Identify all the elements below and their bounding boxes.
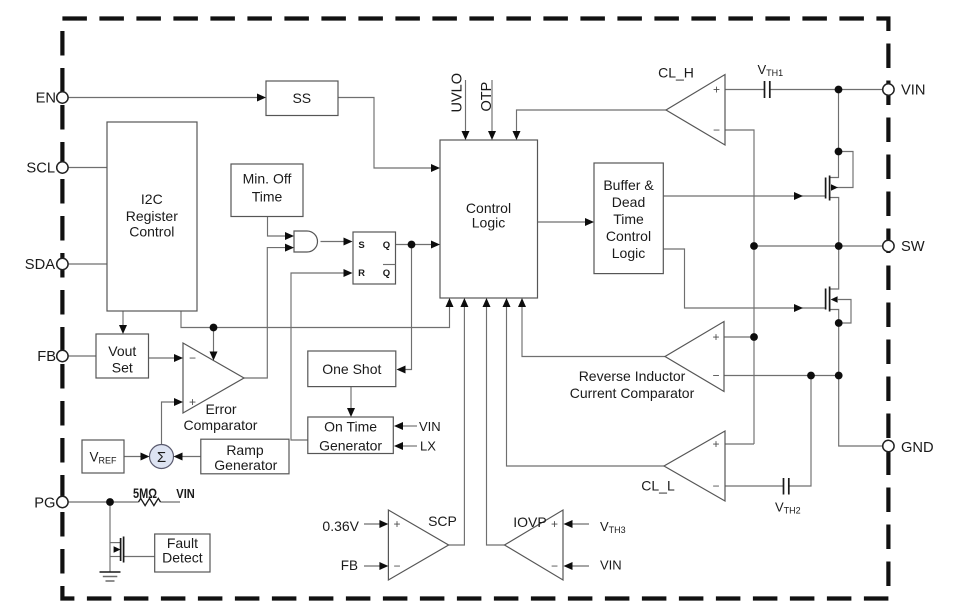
wire Reverse Inductor Comparator output to Control Logic	[522, 306, 665, 357]
svg-text:Generator: Generator	[319, 438, 382, 454]
junction high-side drain body node	[835, 148, 843, 156]
svg-text:FB: FB	[341, 558, 358, 573]
wire RICC minus input	[724, 375, 839, 377]
op-amp Error Comparator	[183, 343, 244, 413]
svg-text:CL_L: CL_L	[641, 478, 675, 494]
wire CL_L plus input	[725, 443, 754, 445]
wire Error Comparator output to AND gate	[244, 248, 287, 378]
arrow low-side MOSFET body	[831, 296, 838, 303]
arrow VTH3 into IOVP plus	[564, 520, 573, 528]
wire IOVP output to Control Logic	[487, 306, 505, 545]
arrow into One Shot right side	[397, 366, 406, 374]
svg-text:+: +	[551, 517, 558, 531]
arrow LX into On Time Generator	[394, 442, 403, 450]
arrow on high-side gate wire	[794, 192, 803, 200]
wire SCP output to Control Logic	[449, 306, 465, 545]
capacitor VTH2	[784, 478, 789, 495]
block I2C Register Control	[107, 122, 197, 311]
svg-text:Register: Register	[126, 208, 178, 224]
svg-text:VIN: VIN	[176, 486, 195, 501]
wire UVLO into Control Logic	[465, 80, 467, 133]
op-amp IOVP	[505, 510, 564, 580]
arrow VIN into On Time Generator	[394, 422, 403, 430]
junction low-side source node	[835, 319, 843, 327]
junction PG node	[106, 498, 114, 506]
svg-text:GND: GND	[901, 440, 934, 456]
svg-text:Time: Time	[252, 189, 283, 205]
wire VIN into IOVP minus	[570, 565, 589, 567]
svg-text:Error: Error	[205, 401, 236, 417]
svg-text:VTH2: VTH2	[775, 500, 801, 516]
pin GND	[883, 440, 894, 451]
arrow up into Control Logic bottom 4 CL_L	[503, 298, 511, 307]
svg-text:S: S	[358, 240, 364, 251]
svg-text:Reverse Inductor: Reverse Inductor	[579, 368, 686, 384]
op-amp CL_H	[666, 75, 725, 146]
svg-text:VIN: VIN	[419, 419, 441, 434]
arrow Ramp Generator into sigma	[174, 453, 183, 461]
arrow fault MOSFET body	[114, 546, 121, 553]
wire Buffer to high-side gate	[663, 195, 825, 197]
junction I2C line to error comparator	[210, 324, 218, 332]
wire VIN node down to high-side drain	[830, 90, 839, 178]
transistor Q1 high-side MOSFET channel plate	[829, 176, 831, 201]
svg-text:+: +	[189, 395, 196, 409]
block One Shot	[308, 351, 396, 387]
svg-text:SCP: SCP	[428, 513, 457, 529]
svg-text:Q: Q	[383, 240, 390, 251]
arrow Control Logic into Buffer	[585, 218, 594, 226]
op-amp Reverse Inductor Current Comparator	[665, 322, 724, 392]
svg-text:Control: Control	[129, 224, 174, 240]
svg-text:Logic: Logic	[612, 245, 645, 261]
arrow AND into latch S	[344, 238, 353, 246]
arrow high-side MOSFET body	[831, 184, 838, 191]
wire Control Logic to Buffer block	[538, 221, 588, 223]
op-amp SCP	[388, 510, 448, 580]
svg-text:Q: Q	[383, 268, 390, 279]
wire latch Q to Control Logic	[396, 244, 434, 246]
svg-text:Generator: Generator	[214, 457, 277, 473]
AND gate	[294, 231, 318, 252]
svg-text:SS: SS	[292, 90, 311, 106]
block Ramp Generator	[201, 439, 289, 474]
wire EN to SS	[68, 97, 260, 99]
resistor 5M ohm	[139, 498, 161, 505]
svg-text:Ramp: Ramp	[226, 442, 264, 458]
transistor Q3 fault MOSFET gate plate	[123, 537, 125, 563]
junction VIN node	[835, 86, 843, 94]
svg-text:IOVP: IOVP	[513, 514, 546, 530]
wire LX into On Time Generator	[401, 445, 417, 447]
arrow Error Comparator into AND	[285, 244, 294, 252]
wire Buffer to low-side gate	[663, 249, 825, 308]
wire CL_H output into Control Logic	[517, 110, 667, 133]
wire PG node down to fault MOSFET and ground	[109, 502, 111, 572]
svg-text:Dead: Dead	[612, 194, 645, 210]
wire CL_L output to Control Logic	[507, 306, 665, 466]
op-amp CL_L	[664, 431, 725, 501]
wire VIN into On Time Generator	[401, 425, 417, 427]
wire summing node to Error Comparator plus	[162, 402, 177, 445]
junction RICC plus node	[750, 333, 758, 341]
svg-text:Buffer &: Buffer &	[603, 177, 654, 193]
pin SCL	[57, 162, 68, 173]
svg-text:−: −	[712, 369, 719, 383]
svg-text:OTP: OTP	[479, 82, 495, 112]
wire SS output to Control Logic	[338, 98, 433, 169]
wire Min Off Time to AND gate	[268, 217, 288, 237]
junction SW sense node	[750, 242, 758, 250]
wire high-side body loop	[837, 152, 853, 188]
wire PG to resistor	[68, 501, 139, 503]
wire OTP into Control Logic	[491, 80, 493, 133]
SR latch	[353, 232, 396, 284]
svg-text:PG: PG	[34, 496, 55, 512]
summing node sigma	[150, 445, 174, 469]
arrow up into Control Logic bottom 1	[446, 298, 454, 307]
wire SCL to I2C	[68, 167, 107, 169]
block VREF	[82, 440, 124, 473]
wire CL_H minus down SW sense line to CL_L plus	[725, 130, 754, 444]
arrow up into Control Logic bottom 3 IOVP	[483, 298, 491, 307]
svg-text:−: −	[189, 351, 196, 365]
svg-text:VTH3: VTH3	[600, 519, 626, 535]
transistor Q2 low-side MOSFET gate plate	[825, 289, 827, 310]
svg-text:−: −	[713, 123, 720, 137]
junction VTH2 branch node	[807, 372, 815, 380]
wire fault MOSFET source stub	[110, 556, 121, 558]
arrow One Shot down into On Time Generator	[347, 408, 355, 417]
wire One Shot to On Time Generator	[350, 387, 352, 410]
arrow 0.36V into SCP plus	[379, 520, 388, 528]
svg-text:EN: EN	[36, 91, 56, 107]
wire VTH3 into IOVP plus	[570, 523, 589, 525]
svg-text:5MΩ: 5MΩ	[133, 486, 157, 501]
wire latch Q node to One Shot	[403, 245, 412, 370]
wire AND output to latch S	[321, 241, 347, 243]
wire VTH2 capacitor up to RICC minus line	[789, 376, 812, 487]
arrow OTP down into Control Logic	[488, 131, 496, 140]
svg-text:−: −	[393, 559, 400, 573]
SR latch Qbar overbar	[383, 264, 396, 266]
wire I2C to Vout Set	[122, 311, 124, 327]
junction SW node	[835, 242, 843, 250]
svg-text:+: +	[712, 330, 719, 344]
svg-text:Σ: Σ	[157, 449, 166, 466]
block On Time Generator	[308, 417, 394, 454]
arrow CL_H output down into Control Logic	[513, 131, 521, 140]
wire low-side source to GND line	[830, 310, 883, 447]
arrow latch Q into Control Logic	[431, 241, 440, 249]
arrow on low-side gate wire	[794, 304, 803, 312]
pin SDA	[57, 258, 68, 269]
svg-text:VTH1: VTH1	[758, 62, 784, 78]
block Fault Detect	[155, 534, 210, 572]
svg-text:SDA: SDA	[25, 257, 55, 273]
wire high-side source to SW node	[830, 198, 839, 247]
transistor Q3 fault MOSFET channel plate	[120, 538, 122, 561]
block SS	[266, 81, 338, 116]
block Buffer and Dead Time Control Logic	[594, 163, 663, 274]
wire SW line	[754, 245, 882, 247]
svg-text:Time: Time	[613, 211, 644, 227]
block Min. Off Time	[231, 164, 303, 217]
svg-text:0.36V: 0.36V	[322, 518, 359, 534]
wire Vout Set to Error Comparator minus	[149, 357, 177, 359]
arrow FB into SCP minus	[379, 562, 388, 570]
wire FB into SCP minus	[364, 565, 381, 567]
svg-text:SCL: SCL	[26, 161, 55, 177]
transistor Q1 high-side MOSFET gate plate	[825, 178, 827, 199]
svg-text:+: +	[393, 517, 400, 531]
svg-text:−: −	[551, 559, 558, 573]
transistor Q2 low-side MOSFET channel plate	[829, 287, 831, 312]
pin EN	[57, 92, 68, 103]
ground	[100, 571, 121, 573]
wire node to Error Comparator top	[213, 328, 215, 354]
svg-text:Detect: Detect	[162, 550, 203, 566]
arrow SS into Control Logic	[431, 164, 440, 172]
svg-text:R: R	[358, 268, 365, 279]
wire VTH1 capacitor to VIN pin	[770, 89, 883, 91]
svg-text:FB: FB	[37, 349, 56, 365]
svg-text:UVLO: UVLO	[450, 73, 466, 113]
arrow Min Off Time into AND	[285, 232, 294, 240]
svg-text:Current Comparator: Current Comparator	[570, 385, 695, 401]
arrow into latch R	[344, 269, 353, 277]
arrow up into Control Logic bottom 2 SCP	[460, 298, 468, 307]
svg-text:Set: Set	[112, 360, 133, 376]
wire Ramp Generator to summing node	[180, 456, 201, 458]
svg-text:+: +	[713, 83, 720, 97]
wire fault MOSFET drain stub	[110, 542, 121, 544]
svg-text:CL_H: CL_H	[658, 65, 694, 81]
junction latch Q node	[408, 241, 416, 249]
wire CL_L minus to VTH2 capacitor	[725, 485, 784, 487]
block Control Logic	[440, 140, 538, 298]
arrow I2C node down into Error Comparator top	[210, 352, 218, 361]
svg-text:+: +	[712, 437, 719, 451]
svg-text:Logic: Logic	[472, 215, 505, 231]
svg-text:On Time: On Time	[324, 419, 377, 435]
wire I2C bottom to Control Logic bottom	[181, 306, 450, 328]
svg-text:Vout: Vout	[108, 343, 136, 359]
wire resistor to VIN label	[161, 501, 181, 503]
svg-text:SW: SW	[901, 239, 925, 255]
wire SW node down to low-side drain	[830, 246, 839, 289]
arrow up into Control Logic bottom 5 RICC	[518, 298, 526, 307]
arrow VREF into sigma	[141, 453, 150, 461]
wire FB to Vout Set	[68, 355, 96, 357]
wire VREF to summing node	[124, 456, 143, 458]
arrow EN into SS	[257, 94, 266, 102]
pin PG	[57, 496, 68, 507]
pin FB	[57, 350, 68, 361]
svg-text:LX: LX	[420, 439, 436, 454]
svg-text:Min. Off: Min. Off	[243, 171, 292, 187]
capacitor VTH1	[765, 81, 770, 98]
wire 0.36V into SCP plus	[364, 523, 381, 525]
block Vout Set	[96, 334, 149, 378]
svg-text:VIN: VIN	[901, 83, 925, 99]
wire CL_H plus to VTH1 capacitor	[725, 89, 765, 91]
junction GND sense node	[835, 372, 843, 380]
pin SW	[883, 240, 894, 251]
arrow I2C down into Vout Set	[119, 325, 127, 334]
wire RICC plus input	[724, 336, 754, 338]
arrow UVLO down into Control Logic	[462, 131, 470, 140]
wire On Time Generator to latch R	[291, 273, 346, 440]
svg-text:One Shot: One Shot	[322, 361, 381, 377]
svg-text:VIN: VIN	[600, 558, 622, 573]
svg-text:Comparator: Comparator	[184, 417, 258, 433]
arrow Vout Set into Error Comparator minus	[174, 354, 183, 362]
wire fault MOSFET gate to Fault Detect	[124, 556, 155, 558]
wire SDA to I2C	[68, 263, 107, 265]
arrow VIN into IOVP minus	[564, 562, 573, 570]
arrow sigma into Error Comparator plus	[174, 398, 183, 406]
svg-text:−: −	[712, 479, 719, 493]
svg-text:Control: Control	[606, 228, 651, 244]
wire low-side body loop	[838, 300, 851, 324]
svg-text:I2C: I2C	[141, 191, 163, 207]
pin VIN	[883, 84, 894, 95]
